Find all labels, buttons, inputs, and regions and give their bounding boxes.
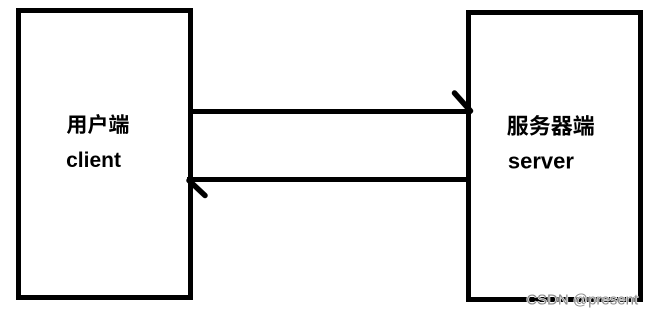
svg-text:client: client (66, 149, 121, 172)
svg-text:CSDN @present: CSDN @present (526, 291, 639, 308)
svg-text:server: server (508, 148, 575, 173)
